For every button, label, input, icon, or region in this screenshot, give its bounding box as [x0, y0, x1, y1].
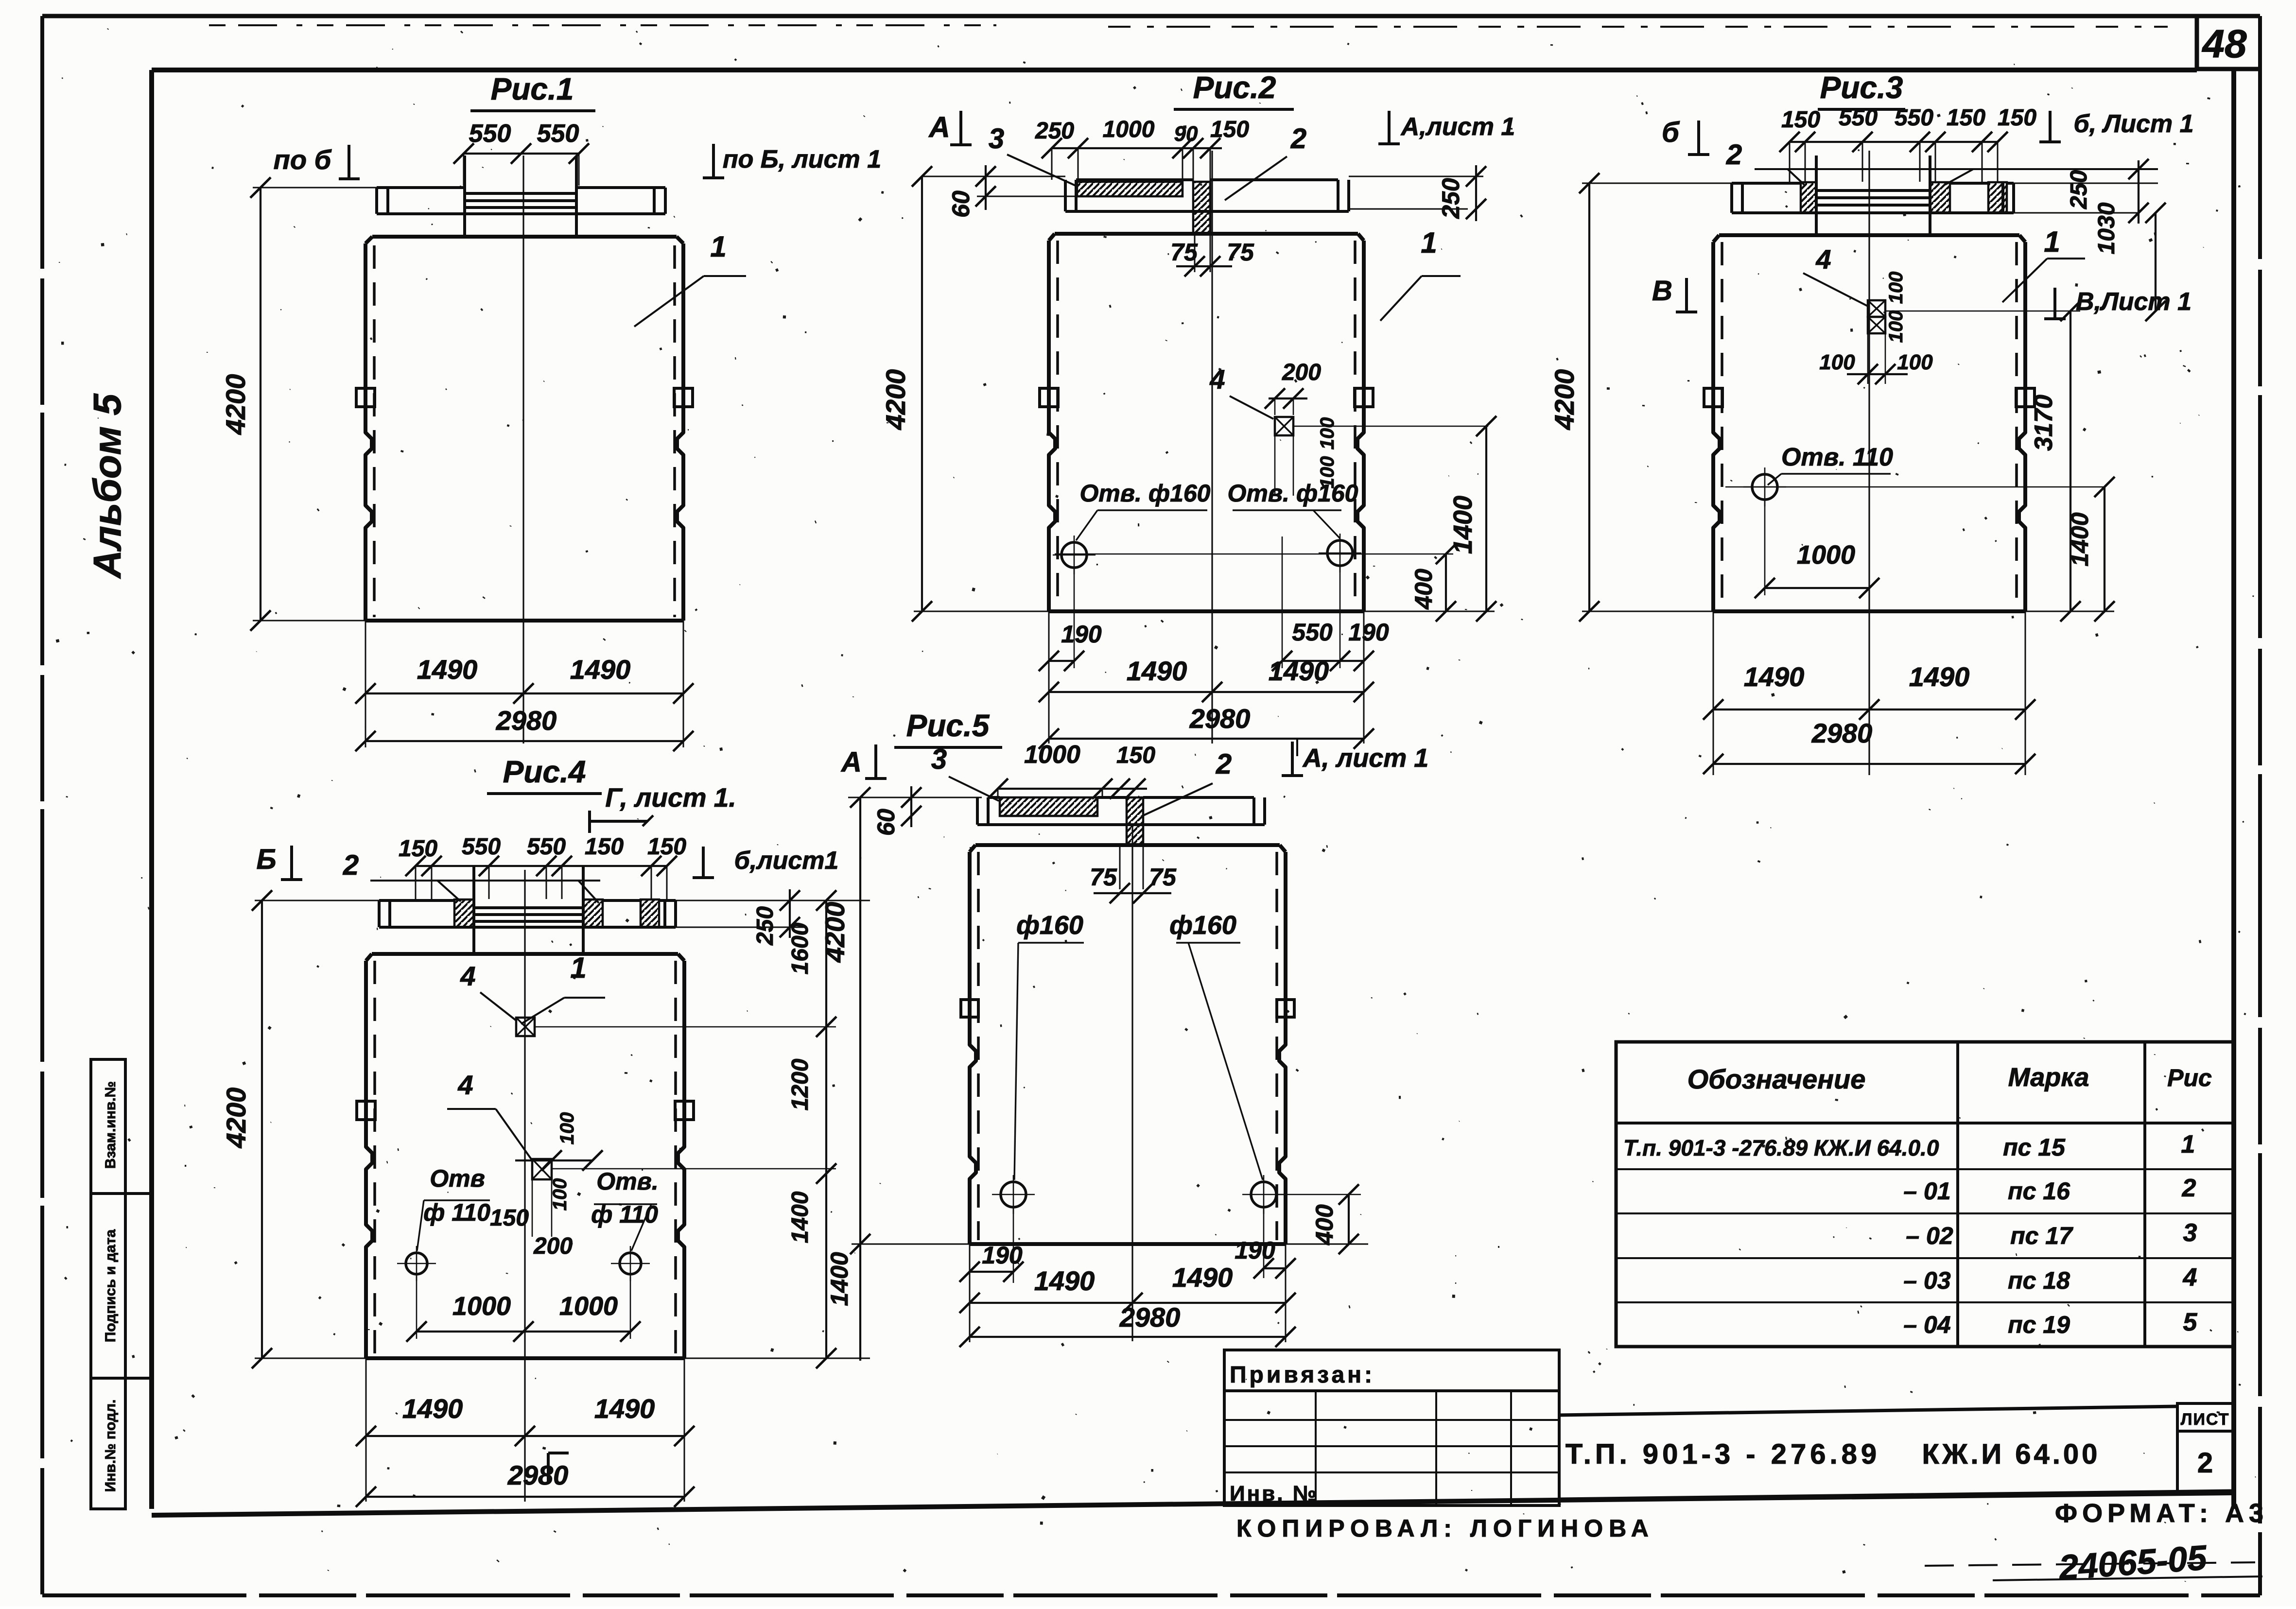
fig2 center axis — [1211, 151, 1213, 744]
svg-text:А, лист 1: А, лист 1 — [1302, 744, 1429, 773]
fig4 dim 1490+1490 and G mark — [366, 1435, 684, 1437]
fig4 dashed inner contour — [373, 961, 376, 1355]
svg-text:– 02: – 02 — [1906, 1222, 1953, 1249]
fig2 dim 75+75 — [1194, 234, 1196, 272]
fig3 mark V list1 right — [2053, 288, 2056, 319]
fig4 flange strip — [379, 899, 454, 902]
svg-text:1000: 1000 — [1024, 741, 1080, 769]
fig3 dim 4200 left — [1588, 183, 1590, 611]
fig2 item3 hatched bar — [1077, 182, 1183, 196]
fig2 dim 2980 — [1049, 738, 1364, 740]
svg-text:Инв.№ подл.: Инв.№ подл. — [103, 1400, 119, 1492]
svg-text:1490: 1490 — [570, 654, 631, 685]
fig5 mark A list1 right — [1291, 742, 1294, 776]
svg-text:Альбом 5: Альбом 5 — [86, 393, 129, 579]
fig3 dim 1000 — [1764, 500, 1766, 595]
fig3 item4 stacked squares with leader — [1868, 300, 1885, 317]
svg-text:ф160: ф160 — [1016, 911, 1083, 940]
svg-text:Привязан:: Привязан: — [1230, 1362, 1375, 1388]
svg-text:4: 4 — [460, 961, 475, 991]
svg-text:150: 150 — [647, 834, 686, 860]
svg-text:1000: 1000 — [559, 1292, 618, 1321]
fig2 mark A list1 right — [1388, 111, 1391, 144]
svg-text:250: 250 — [752, 906, 778, 946]
svg-text:4: 4 — [1815, 244, 1831, 275]
fig2 bottom extension stub — [1296, 739, 1298, 756]
fig5 dim 400 right — [1278, 1194, 1361, 1195]
svg-text:Г, лист 1.: Г, лист 1. — [605, 782, 736, 813]
fig1 mark po B list 1 right — [712, 144, 715, 178]
svg-text:Рис.1: Рис.1 — [491, 71, 574, 106]
svg-text:Взам.инв.№: Взам.инв.№ — [103, 1081, 119, 1169]
svg-text:3: 3 — [931, 744, 947, 775]
fig2 flange strip — [1076, 178, 1193, 181]
svg-text:2: 2 — [1290, 123, 1306, 155]
fig2 dim 400 right — [1445, 554, 1447, 611]
svg-text:550: 550 — [462, 834, 501, 860]
svg-text:190: 190 — [1348, 619, 1389, 646]
svg-text:100: 100 — [1897, 350, 1933, 374]
svg-text:190: 190 — [982, 1242, 1023, 1269]
fig2 dim 1400 right — [1485, 426, 1487, 611]
inner drawing frame — [152, 68, 2197, 72]
fig3 hole otv 110 — [1752, 474, 1777, 500]
fig2 panel body outline — [1055, 232, 1358, 236]
svg-text:б, Лист 1: б, Лист 1 — [2073, 110, 2193, 138]
svg-text:150: 150 — [1998, 105, 2036, 131]
svg-text:1200: 1200 — [787, 1058, 813, 1110]
svg-text:550: 550 — [537, 120, 579, 148]
fig1 dim 2980 — [365, 740, 683, 742]
svg-text:б,лист1: б,лист1 — [734, 847, 839, 875]
svg-text:пс 16: пс 16 — [2008, 1177, 2070, 1205]
svg-text:2980: 2980 — [1811, 718, 1873, 748]
svg-text:Отв: Отв — [430, 1165, 485, 1192]
fig5 center axis — [1131, 826, 1133, 1341]
svg-text:100: 100 — [1885, 272, 1907, 304]
svg-text:1: 1 — [570, 952, 586, 984]
fig2 holes otv f160 — [1061, 542, 1087, 568]
fig3 panel body outline — [1719, 233, 2019, 237]
svg-text:100: 100 — [549, 1178, 571, 1211]
svg-text:2: 2 — [1216, 748, 1232, 780]
svg-text:250: 250 — [1035, 118, 1074, 144]
svg-text:3170: 3170 — [2030, 395, 2058, 451]
svg-text:Отв.: Отв. — [596, 1168, 658, 1195]
svg-text:ФОРМАТ: А3: ФОРМАТ: А3 — [2055, 1499, 2268, 1528]
parts table — [1616, 1042, 2234, 1347]
svg-text:4: 4 — [457, 1070, 473, 1100]
svg-text:150: 150 — [490, 1205, 529, 1231]
svg-text:100: 100 — [1819, 350, 1855, 374]
fig4 dim 2980 — [366, 1496, 684, 1498]
svg-text:по Б, лист 1: по Б, лист 1 — [723, 145, 881, 173]
svg-text:1: 1 — [1421, 226, 1437, 259]
fig2 dashed inner contour — [1056, 241, 1059, 607]
svg-text:200: 200 — [533, 1233, 573, 1259]
svg-text:4200: 4200 — [880, 369, 911, 431]
svg-text:пс 19: пс 19 — [2008, 1311, 2070, 1338]
svg-text:Отв. ф160: Отв. ф160 — [1080, 480, 1211, 507]
svg-text:Т.п. 901-3 -276.89 КЖ.И 64.0.0: Т.п. 901-3 -276.89 КЖ.И 64.0.0 — [1623, 1135, 1939, 1160]
fig5 dim 60 left — [848, 797, 982, 798]
svg-text:пс 18: пс 18 — [2008, 1267, 2070, 1294]
svg-text:1000: 1000 — [1797, 540, 1855, 570]
fig4 central tab — [472, 866, 475, 954]
svg-text:Рис.3: Рис.3 — [1820, 70, 1903, 105]
outer page border — [42, 14, 2260, 18]
svg-text:1: 1 — [2044, 225, 2060, 258]
fig1 dim 1490+1490 — [365, 692, 683, 694]
svg-text:1030: 1030 — [2094, 202, 2120, 254]
fig5 dashed inner contour — [977, 852, 980, 1240]
svg-text:150: 150 — [1116, 743, 1155, 768]
fig1 dim 550+550 — [464, 153, 579, 155]
fig3 central tab — [1815, 156, 1818, 235]
svg-text:90: 90 — [1174, 122, 1198, 146]
svg-text:100: 100 — [1885, 311, 1907, 343]
svg-text:150: 150 — [1210, 117, 1249, 142]
svg-text:1490: 1490 — [594, 1393, 655, 1424]
fig2 dim 250 right — [1349, 176, 1483, 177]
svg-text:– 03: – 03 — [1903, 1267, 1951, 1294]
svg-text:Т.П. 901-3 - 276.89: Т.П. 901-3 - 276.89 — [1565, 1438, 1880, 1470]
svg-text:3: 3 — [989, 123, 1004, 155]
fig2 dim 1490+1490 — [1049, 691, 1364, 693]
svg-text:2: 2 — [2182, 1174, 2196, 1202]
svg-text:100: 100 — [557, 1112, 578, 1145]
svg-text:КОПИРОВАЛ: ЛОГИНОВА: КОПИРОВАЛ: ЛОГИНОВА — [1236, 1515, 1654, 1542]
fig2 dim 60 left — [921, 176, 1065, 177]
svg-text:Марка: Марка — [2008, 1063, 2089, 1092]
svg-text:1000: 1000 — [452, 1292, 511, 1321]
fig4 panel body outline — [372, 952, 678, 956]
svg-text:КЖ.И 64.00: КЖ.И 64.00 — [1922, 1438, 2101, 1470]
svg-text:75: 75 — [1090, 864, 1117, 891]
list box — [2177, 1403, 2234, 1431]
svg-text:Инв. №: Инв. № — [1230, 1482, 1319, 1505]
svg-text:1: 1 — [2181, 1130, 2195, 1159]
svg-text:ф160: ф160 — [1169, 911, 1236, 940]
svg-text:250: 250 — [2066, 170, 2092, 209]
fig1 center axis — [522, 156, 524, 744]
svg-text:Рис.2: Рис.2 — [1193, 70, 1276, 105]
svg-text:2980: 2980 — [507, 1460, 569, 1490]
svg-text:5: 5 — [2183, 1308, 2198, 1336]
fig3 mark b list1 right — [2049, 111, 2052, 142]
svg-text:75: 75 — [1170, 239, 1198, 266]
svg-text:2980: 2980 — [1119, 1302, 1181, 1332]
privyazan mini table — [1224, 1350, 1559, 1505]
svg-text:пс 15: пс 15 — [2003, 1134, 2066, 1161]
fig1 central tab — [463, 156, 466, 237]
svg-text:Рис.5: Рис.5 — [906, 708, 990, 743]
svg-text:А: А — [928, 111, 950, 143]
fig3 center axis — [1868, 151, 1870, 775]
fig4 item4 square center with leader — [532, 1159, 552, 1179]
svg-text:1490: 1490 — [1744, 661, 1805, 692]
fig2 item4 square with leader — [1275, 417, 1293, 435]
svg-text:Рис: Рис — [2167, 1064, 2212, 1091]
fig5 dim 2980 — [970, 1336, 1286, 1338]
svg-text:1: 1 — [710, 230, 726, 263]
svg-text:1490: 1490 — [402, 1393, 463, 1424]
svg-text:1490: 1490 — [1127, 656, 1187, 686]
fig1 panel top flange strip — [377, 186, 465, 189]
fig3 dim 1490+1490 — [1713, 709, 2025, 710]
svg-text:А,лист 1: А,лист 1 — [1400, 113, 1515, 141]
svg-text:60: 60 — [947, 190, 974, 218]
svg-text:550: 550 — [1895, 105, 1933, 131]
fig4 dim 4200 left — [261, 900, 263, 1358]
fig3 right dims 250 1030 3170 1400 — [2014, 183, 2158, 184]
fig2 dim 4200 left — [921, 176, 923, 611]
svg-text:Подпись и дата: Подпись и дата — [103, 1229, 119, 1342]
fig5 dim 75+75 — [1119, 845, 1121, 889]
svg-text:1490: 1490 — [1909, 661, 1970, 692]
fig3 dashed inner contour — [1721, 242, 1723, 607]
svg-text:100: 100 — [1317, 417, 1338, 450]
svg-text:Отв. ф160: Отв. ф160 — [1228, 480, 1358, 507]
svg-text:550: 550 — [1292, 619, 1333, 646]
svg-text:4: 4 — [2183, 1263, 2197, 1292]
svg-text:48: 48 — [2201, 22, 2247, 66]
fig5 flange strip — [988, 796, 1000, 799]
svg-text:А: А — [840, 746, 862, 778]
svg-text:3: 3 — [2183, 1219, 2197, 1247]
svg-text:4200: 4200 — [1549, 369, 1580, 431]
svg-text:550: 550 — [469, 120, 511, 148]
page number box 48 — [2195, 16, 2199, 69]
svg-text:150: 150 — [399, 836, 437, 862]
svg-text:4: 4 — [1209, 364, 1225, 395]
svg-text:б: б — [1662, 117, 1680, 148]
svg-text:1490: 1490 — [1172, 1262, 1233, 1293]
fig1 dim 4200 vertical — [260, 188, 261, 621]
fig3 flange strip — [1732, 182, 1801, 185]
fig4 item4 square upper with leader — [516, 1018, 535, 1036]
svg-text:550: 550 — [1839, 105, 1878, 131]
fig3 hatched pieces in strip — [1801, 182, 1816, 213]
svg-text:550: 550 — [527, 834, 566, 860]
svg-text:200: 200 — [1282, 360, 1321, 385]
svg-text:– 01: – 01 — [1903, 1177, 1950, 1205]
fig4 dim 1000+1000 — [416, 1276, 417, 1339]
fig4 center axis — [524, 870, 525, 1502]
fig2 item2 hatched piece — [1193, 182, 1210, 234]
svg-text:Рис.4: Рис.4 — [503, 754, 586, 789]
svg-text:150: 150 — [1947, 105, 1985, 131]
fig4 holes otv f110 — [406, 1253, 427, 1274]
svg-text:1400: 1400 — [787, 1191, 813, 1243]
fig5 bottom dims 190 190 — [1013, 1207, 1014, 1283]
fig1 panel body outline — [372, 235, 677, 239]
svg-text:190: 190 — [1061, 621, 1102, 648]
scan artifact dashes under top border — [209, 24, 996, 26]
fig4 mark b list1 right — [702, 847, 705, 878]
svg-text:250: 250 — [1437, 178, 1464, 219]
fig2 bottom dims 190 550 190 — [1074, 568, 1075, 668]
svg-text:пс 17: пс 17 — [2010, 1222, 2073, 1249]
svg-text:1490: 1490 — [1269, 656, 1329, 686]
svg-text:ЛИСТ: ЛИСТ — [2181, 1410, 2230, 1429]
svg-text:4200: 4200 — [819, 902, 850, 963]
left stamp column — [91, 1059, 125, 1509]
fig5 holes f160 with labels — [1001, 1182, 1026, 1207]
svg-text:1000: 1000 — [1103, 117, 1155, 142]
svg-text:В,Лист 1: В,Лист 1 — [2076, 288, 2192, 316]
svg-text:1400: 1400 — [1448, 496, 1478, 554]
svg-text:1490: 1490 — [1034, 1265, 1095, 1296]
main title bar — [1559, 1406, 2177, 1415]
svg-text:1490: 1490 — [417, 654, 478, 685]
svg-text:Отв. 110: Отв. 110 — [1781, 443, 1893, 471]
fig5 panel body outline — [975, 843, 1280, 847]
svg-text:Б: Б — [256, 844, 276, 875]
svg-text:В: В — [1652, 275, 1672, 307]
fig4 hatched pieces in strip — [454, 900, 474, 927]
svg-text:75: 75 — [1149, 864, 1177, 891]
svg-text:2: 2 — [343, 849, 359, 881]
svg-text:– 04: – 04 — [1903, 1311, 1950, 1338]
fig5 item2 hatched piece — [1127, 797, 1143, 845]
svg-text:150: 150 — [585, 834, 624, 860]
svg-text:1400: 1400 — [826, 1252, 853, 1306]
svg-text:1600: 1600 — [787, 922, 813, 974]
svg-text:60: 60 — [872, 809, 900, 836]
fig5 dim 4200 left — [859, 797, 861, 1361]
fig5 dim 1490+1490 — [970, 1302, 1286, 1304]
svg-text:2: 2 — [2197, 1447, 2213, 1479]
svg-text:2980: 2980 — [1189, 703, 1251, 734]
svg-text:4200: 4200 — [220, 374, 251, 435]
svg-text:ф 110: ф 110 — [423, 1199, 490, 1226]
svg-text:150: 150 — [1781, 107, 1820, 133]
svg-text:2980: 2980 — [496, 705, 557, 736]
svg-text:400: 400 — [1410, 569, 1437, 610]
fig3 dim 2980 — [1713, 763, 2025, 765]
fig5 item3 hatched bar — [1000, 797, 1097, 816]
svg-text:Обозначение: Обозначение — [1687, 1064, 1866, 1094]
svg-text:190: 190 — [1235, 1237, 1275, 1264]
svg-text:по б: по б — [274, 144, 332, 175]
svg-text:1400: 1400 — [2066, 512, 2093, 566]
fig4 right chain dims 250 1600 1200 1400 4200 — [676, 900, 870, 901]
svg-text:400: 400 — [1311, 1204, 1338, 1246]
svg-text:75: 75 — [1227, 239, 1254, 266]
fig1 dashed inner contour lines — [373, 245, 376, 617]
svg-text:2: 2 — [1726, 139, 1742, 171]
svg-text:4200: 4200 — [221, 1088, 251, 1149]
